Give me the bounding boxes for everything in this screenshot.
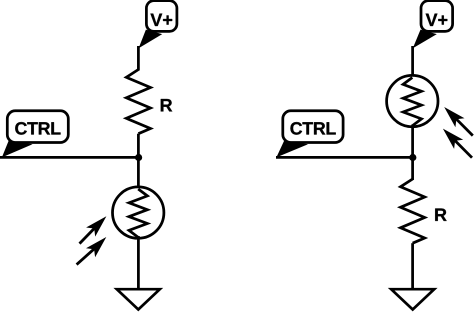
resistor R2 (right) [401, 179, 425, 243]
label R value (right resistor) [435, 209, 446, 221]
LDR1 light arrow upper shaft [80, 227, 97, 244]
flag bubble V+ (right) [421, 1, 453, 32]
wire CTRL horizontal (left) [0, 156, 138, 159]
wire CTRL horizontal (right) [276, 156, 413, 159]
photoresistor LDR2 circle (right) [387, 75, 438, 126]
wire node to LDR (left) [137, 157, 140, 190]
flag bubble CTRL (left) [7, 111, 68, 143]
LDR1 light arrow lower shaft [77, 247, 96, 264]
flag tail V+ (right) [413, 30, 437, 49]
flag bubble CTRL (right) [283, 111, 343, 143]
flag tail V+ (left) [139, 30, 163, 49]
wire V+ to LDR (right) [411, 46, 414, 79]
label V+ (right) [426, 14, 448, 26]
label V+ (left) [150, 14, 172, 26]
label R value (left resistor) [161, 99, 172, 111]
photoresistor LDR1 zigzag (left) [129, 189, 147, 237]
ground symbol (right) [391, 289, 434, 309]
flag tail CTRL (right) [276, 140, 308, 157]
label CTRL (right) [290, 122, 335, 135]
LDR2 light arrow lower head [443, 129, 463, 149]
flag bubble V+ (left) [146, 1, 177, 32]
wire resistor to ground (right) [411, 243, 414, 288]
LDR2 light arrow upper head [444, 107, 464, 127]
photoresistor LDR2 zigzag (right) [403, 78, 421, 126]
wire LDR to ground (left) [137, 236, 140, 289]
LDR2 light arrow lower shaft [453, 139, 472, 158]
flag tail CTRL (left) [2, 140, 33, 157]
LDR2 light arrow upper shaft [455, 117, 473, 135]
ground symbol (left) [117, 289, 160, 309]
wire resistor to node (left) [137, 134, 140, 158]
node junction (left) [135, 154, 142, 161]
wire V+ to resistor (left) [137, 46, 140, 71]
LDR1 light arrow lower head [86, 237, 106, 257]
wire node to resistor (right) [411, 157, 414, 180]
LDR1 light arrow upper head [86, 216, 106, 236]
label CTRL (left) [15, 122, 60, 135]
wire LDR to node (right) [411, 125, 414, 159]
photoresistor LDR1 circle (left) [113, 187, 164, 238]
resistor R1 (left) [126, 70, 150, 134]
node junction (right) [409, 154, 416, 161]
